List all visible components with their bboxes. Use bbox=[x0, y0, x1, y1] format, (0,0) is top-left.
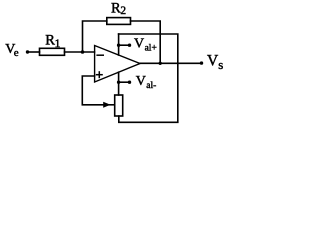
svg-text:s: s bbox=[218, 57, 223, 72]
svg-text:1: 1 bbox=[55, 36, 61, 50]
svg-text:V: V bbox=[136, 74, 146, 89]
svg-text:e: e bbox=[14, 47, 19, 59]
svg-text:V: V bbox=[134, 37, 144, 52]
svg-text:V: V bbox=[207, 52, 219, 69]
svg-text:al-: al- bbox=[146, 81, 156, 91]
svg-text:2: 2 bbox=[120, 5, 126, 17]
svg-text:al+: al+ bbox=[145, 44, 157, 54]
